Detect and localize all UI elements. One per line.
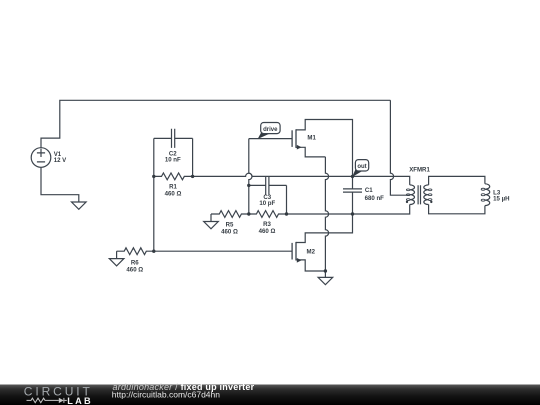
svg-text:LAB: LAB: [67, 396, 92, 405]
svg-text:10 pF: 10 pF: [259, 200, 275, 207]
svg-text:R1: R1: [169, 183, 177, 190]
svg-text:12 V: 12 V: [54, 157, 67, 164]
svg-text:R5: R5: [226, 221, 234, 228]
svg-text:M2: M2: [307, 248, 316, 255]
svg-text:460 Ω: 460 Ω: [126, 267, 143, 274]
svg-text:XFMR1: XFMR1: [409, 166, 430, 173]
svg-text:460 Ω: 460 Ω: [221, 229, 238, 236]
svg-text:10 nF: 10 nF: [165, 157, 181, 164]
svg-text:460 Ω: 460 Ω: [259, 228, 276, 235]
svg-text:R6: R6: [131, 259, 139, 266]
svg-text:R3: R3: [263, 221, 271, 228]
svg-text:http://circuitlab.com/c67d4hn: http://circuitlab.com/c67d4hn: [112, 390, 220, 400]
svg-text:15 µH: 15 µH: [493, 195, 509, 202]
svg-text:680 nF: 680 nF: [365, 195, 385, 202]
svg-text:460 Ω: 460 Ω: [165, 191, 182, 198]
svg-text:C1: C1: [365, 187, 373, 194]
svg-text:out: out: [357, 164, 366, 170]
svg-text:drive: drive: [263, 127, 278, 133]
svg-text:M1: M1: [307, 135, 316, 142]
